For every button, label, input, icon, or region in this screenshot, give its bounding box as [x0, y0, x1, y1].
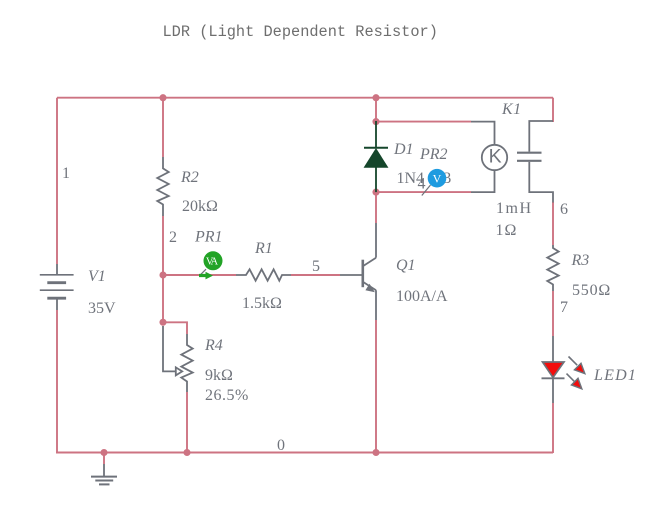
junction node (163,323)	[159, 319, 166, 326]
svg-text:20kΩ: 20kΩ	[182, 198, 218, 215]
wire R3 to LED	[552, 291, 554, 336]
resistor R3	[547, 245, 558, 291]
svg-text:K: K	[489, 146, 502, 168]
wire coil top	[376, 121, 471, 123]
svg-text:7: 7	[560, 299, 568, 316]
svg-text:R2: R2	[180, 169, 199, 186]
wire top	[57, 97, 553, 99]
wire R1 to Q1 base	[291, 274, 340, 276]
svg-text:5: 5	[312, 258, 320, 275]
wire left lower	[56, 310, 58, 453]
probe PR2	[422, 169, 447, 196]
resistor R2	[157, 157, 168, 216]
svg-text:R1: R1	[254, 240, 273, 257]
wire Q1 collector	[375, 192, 377, 223]
battery V1	[40, 264, 74, 310]
wire left	[56, 98, 58, 264]
potentiometer R4	[163, 326, 193, 392]
wire Q1 emitter to bottom	[375, 320, 377, 453]
wire node 2 to R4	[162, 275, 164, 323]
diode D1	[364, 121, 388, 192]
svg-text:PR2: PR2	[419, 146, 448, 163]
resistor R1	[236, 269, 291, 280]
probe PR1	[199, 251, 223, 279]
junction ground (104,452)	[100, 449, 107, 456]
svg-text:1.5kΩ: 1.5kΩ	[242, 295, 282, 312]
svg-text:35V: 35V	[88, 300, 116, 317]
svg-text:550Ω: 550Ω	[572, 282, 611, 299]
svg-text:1: 1	[62, 165, 70, 182]
svg-text:R4: R4	[204, 337, 223, 354]
svg-text:K1: K1	[501, 101, 522, 118]
junction node (376,121)	[372, 118, 379, 125]
svg-text:2: 2	[169, 229, 177, 246]
wire diode top	[375, 98, 377, 122]
svg-text:Q1: Q1	[396, 257, 416, 274]
relay coil K1	[471, 122, 507, 193]
svg-text:PR1: PR1	[194, 228, 223, 245]
ground	[91, 464, 117, 484]
wire R4 top	[163, 322, 187, 334]
relay contact K1	[517, 121, 553, 203]
svg-text:26.5%: 26.5%	[205, 387, 249, 404]
wire R2 bottom to node 2	[162, 216, 164, 276]
junction node (376,191)	[372, 189, 379, 196]
junction emitter bottom (376,452)	[372, 449, 379, 456]
svg-text:9kΩ: 9kΩ	[205, 367, 233, 384]
wire relay contact to R3	[552, 202, 554, 245]
svg-text:4: 4	[418, 175, 426, 192]
svg-text:1mH: 1mH	[496, 200, 533, 217]
svg-text:100A/A: 100A/A	[396, 288, 448, 305]
wire R2 top	[162, 98, 164, 157]
wire ground stem	[103, 453, 105, 465]
transistor Q1	[340, 223, 376, 320]
junction R4 bottom (187,452)	[183, 449, 190, 456]
junction node 2 (163,274)	[159, 271, 166, 278]
wire LED to bottom	[552, 403, 554, 453]
svg-text:0: 0	[277, 437, 285, 454]
wire bottom	[56, 452, 553, 454]
junction node (163,97)	[159, 94, 166, 101]
junction node (376,97)	[372, 94, 379, 101]
wire right top	[552, 98, 554, 122]
wire node 2 to R1	[163, 274, 236, 276]
wire R4 bottom	[186, 392, 188, 453]
svg-text:1Ω: 1Ω	[496, 222, 518, 239]
svg-text:V1: V1	[88, 268, 106, 285]
LED1	[542, 336, 585, 403]
wire coil bottom	[376, 191, 471, 193]
svg-text:D1: D1	[393, 141, 414, 158]
svg-text:LED1: LED1	[593, 367, 637, 384]
svg-text:6: 6	[560, 201, 568, 218]
svg-text:LDR (Light Dependent Resistor): LDR (Light Dependent Resistor)	[163, 23, 438, 41]
svg-text:V: V	[433, 172, 442, 186]
svg-text:R3: R3	[571, 252, 590, 269]
